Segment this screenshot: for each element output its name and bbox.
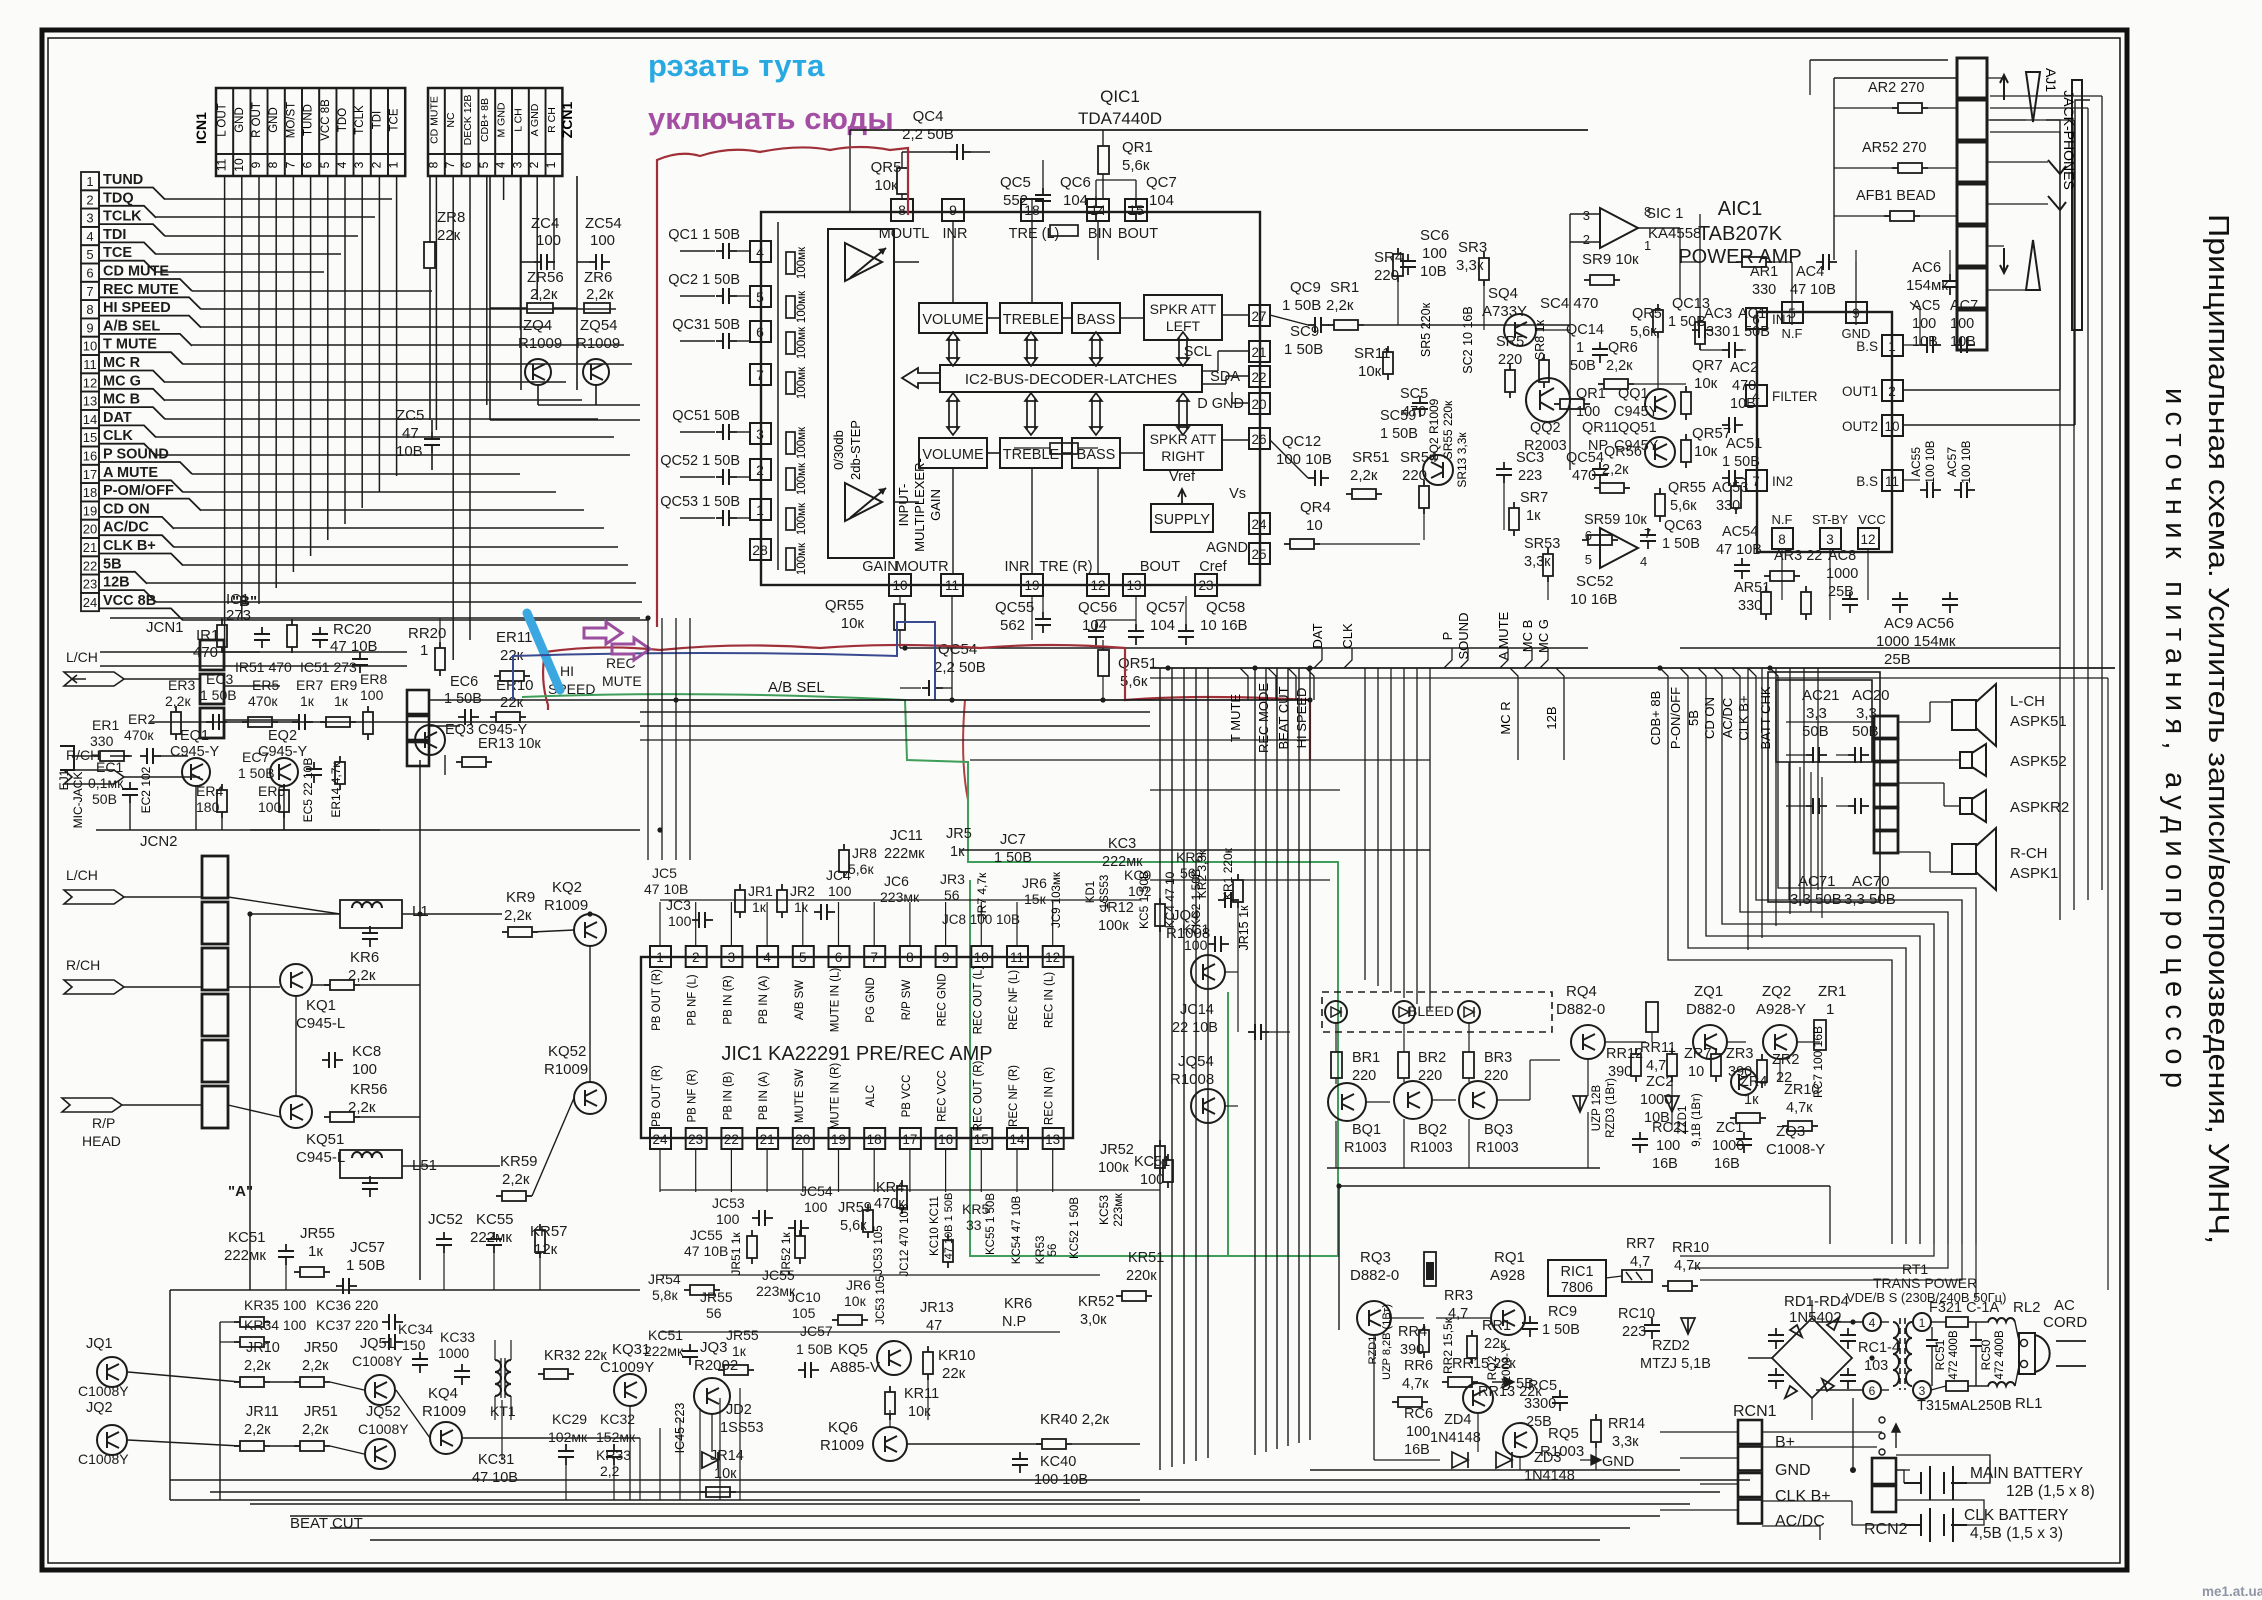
svg-text:ZR10: ZR10 [1784,1082,1819,1098]
svg-text:6: 6 [460,161,474,168]
svg-text:JR55: JR55 [726,1327,759,1343]
svg-text:4: 4 [1640,554,1647,569]
svg-text:7: 7 [756,367,764,383]
svg-text:2,2к: 2,2к [165,693,191,709]
svg-text:MC R: MC R [103,355,141,371]
svg-text:Cref: Cref [1199,559,1227,575]
svg-text:BOUT: BOUT [1140,559,1180,575]
svg-text:ER11: ER11 [496,629,532,646]
svg-text:QR1: QR1 [1122,139,1153,156]
svg-text:RC6: RC6 [1404,1406,1433,1422]
svg-text:QC2 1 50B: QC2 1 50B [668,272,740,288]
svg-text:JCN1: JCN1 [146,619,184,636]
svg-text:8: 8 [266,161,280,168]
red trace jic [963,700,968,850]
svg-text:CORD: CORD [2043,1314,2087,1331]
svg-text:QQ1: QQ1 [1618,386,1649,402]
svg-text:QR51: QR51 [1118,655,1157,672]
svg-text:AC21: AC21 [1802,687,1840,704]
wires battery [1896,1469,1910,1471]
svg-text:16B: 16B [1714,1156,1740,1172]
svg-text:22 10B: 22 10B [1172,1020,1218,1036]
svg-text:KC55: KC55 [476,1211,514,1228]
svg-text:47 10B: 47 10B [644,881,688,897]
ZCN1 cell 1 R CH [546,88,563,154]
svg-text:BOUT: BOUT [1118,226,1158,242]
wire SCL SDA DGND [1202,370,1218,372]
svg-text:JC8 100 10B: JC8 100 10B [942,912,1020,927]
svg-text:CLK BATTERY: CLK BATTERY [1964,1507,2069,1524]
svg-text:21: 21 [760,1132,775,1147]
svg-text:JC53 105: JC53 105 [875,1275,887,1324]
pin 17 A MUTE [81,465,99,483]
transistor KQ1 C945-L [280,964,312,996]
vertical trunk bundle [1159,668,1161,1470]
svg-text:JR50: JR50 [304,1340,338,1356]
capacitor 100мк 2 [786,296,795,318]
svg-text:102мк: 102мк [548,1429,588,1445]
svg-text:2,2к: 2,2к [530,286,558,303]
svg-text:SC52: SC52 [1576,573,1614,590]
svg-text:10B: 10B [1730,396,1756,412]
svg-text:ZQ2: ZQ2 [1762,983,1791,1000]
svg-text:23: 23 [688,1132,703,1147]
svg-text:12B: 12B [1544,706,1559,729]
svg-text:R1009: R1009 [544,897,588,914]
ZCN1 cell 5 CDB+ 8B [478,88,495,154]
svg-text:INR: INR [943,226,968,242]
svg-text:ER5: ER5 [258,783,285,799]
diode ZZD1 [1665,1096,1679,1112]
wire long verticals left-mid [647,618,649,860]
svg-text:5,6к: 5,6к [848,861,874,877]
svg-text:14: 14 [1009,1132,1025,1147]
svg-text:ZR1: ZR1 [1818,983,1846,1000]
svg-text:47 10B: 47 10B [684,1243,728,1259]
wire bundle right edge [2059,132,2061,920]
svg-text:7: 7 [1644,526,1651,541]
svg-text:5: 5 [86,247,93,262]
svg-text:ZR3: ZR3 [1726,1046,1753,1062]
svg-text:KR9: KR9 [506,889,535,906]
svg-text:RR1: RR1 [1482,1318,1511,1334]
svg-text:VOLUME: VOLUME [922,447,984,463]
svg-text:104: 104 [1150,617,1175,634]
svg-text:QC9: QC9 [1290,279,1321,296]
svg-text:RC20: RC20 [333,621,371,638]
svg-text:VCC: VCC [1858,512,1885,527]
svg-text:AR2 270: AR2 270 [1868,80,1924,96]
JIC1 pin 18 [864,1128,885,1149]
resistor ER5 [242,721,248,723]
navy trace [513,622,935,700]
ICN1 cell 3 TCLK [354,88,371,154]
svg-text:470: 470 [1732,378,1756,394]
svg-text:JQ3: JQ3 [700,1339,728,1356]
svg-text:KC31: KC31 [478,1452,514,1468]
transformer pin 6 [1863,1381,1881,1399]
wire long horizontals mid [970,759,1430,761]
svg-text:6: 6 [835,950,843,965]
svg-text:18: 18 [867,1132,882,1147]
svg-text:1: 1 [544,161,558,168]
svg-text:20: 20 [795,1132,810,1147]
svg-text:10: 10 [83,339,97,354]
svg-text:JC53: JC53 [712,1195,745,1211]
svg-text:13: 13 [1045,1132,1060,1147]
pin 18 P-OM/OFF [81,483,99,501]
IC RIC1 7806 [1548,1260,1606,1296]
wire [124,896,202,898]
svg-text:C945-L: C945-L [296,1149,345,1166]
AIC1 pin 6 IN1 [1746,308,1767,329]
svg-text:24: 24 [83,595,97,610]
svg-text:21: 21 [1251,345,1266,360]
svg-text:TAB207K: TAB207K [1698,223,1783,245]
QIC1 pin 14 BIN [1087,199,1109,221]
svg-text:JC52: JC52 [428,1211,463,1228]
svg-text:R/P SW: R/P SW [901,980,913,1021]
JIC1 pin 14 [1007,1128,1028,1149]
svg-text:JR14: JR14 [710,1448,744,1464]
svg-text:0,1мк: 0,1мк [88,775,124,791]
svg-text:1 50B: 1 50B [1732,324,1770,340]
pin 11 MC R [81,355,99,373]
svg-text:22: 22 [1251,370,1266,385]
svg-text:33: 33 [966,1217,982,1233]
svg-text:AC20: AC20 [1852,687,1890,704]
wire [128,1372,240,1382]
svg-text:KR34 100: KR34 100 [244,1317,306,1333]
svg-text:AFB1 BEAD: AFB1 BEAD [1856,188,1936,204]
svg-text:SR13 3,3к: SR13 3,3к [1455,432,1469,488]
svg-text:11: 11 [1885,474,1899,489]
svg-text:1 50B: 1 50B [200,687,237,703]
pin 14 DAT [81,410,99,428]
QIC1 pin 11 MOUTR [941,574,963,596]
svg-text:EC2 102: EC2 102 [139,766,153,813]
svg-text:SR55 220к: SR55 220к [1441,400,1455,459]
svg-text:KC34: KC34 [398,1321,433,1337]
wire [520,262,522,390]
svg-text:P-OM/OFF: P-OM/OFF [103,483,174,499]
svg-text:3: 3 [1826,532,1834,547]
svg-text:SR53: SR53 [1524,536,1560,552]
svg-text:4: 4 [494,161,508,168]
wire [110,755,132,757]
ZCN1 cell 2 A GND [529,88,546,154]
wire QIC1 bottom rail [900,647,1588,649]
QIC1 pin 1 [750,499,771,520]
speaker R-CH ASPK1 [1952,844,1976,874]
svg-text:23: 23 [83,577,97,592]
svg-text:M GND: M GND [496,102,508,137]
svg-text:21: 21 [83,540,97,555]
svg-text:JD2: JD2 [726,1402,752,1418]
svg-text:4: 4 [763,950,771,965]
svg-text:QR56: QR56 [1604,444,1642,460]
block SPKR ATT RIGHT [1144,425,1222,470]
pin 24 VCC 8B [81,593,99,611]
svg-text:MUTE SW: MUTE SW [794,1069,806,1123]
svg-text:6: 6 [1585,528,1592,543]
wire rows to right [165,198,392,200]
capacitor 100мк 1 [786,252,795,274]
pin 1 TUND [81,172,99,190]
wire top rail [850,129,1588,131]
ZCN1 cell 6 DECK 12B [462,88,479,154]
QIC1 pin 4 [750,241,771,262]
wire [170,1289,640,1291]
svg-text:GND: GND [234,107,246,133]
svg-text:2: 2 [369,161,383,168]
svg-text:IC51 273: IC51 273 [300,659,357,675]
capacitor KC2 series [1218,899,1225,901]
transistor BQ2 R1003 [1394,1081,1432,1119]
svg-text:ER2: ER2 [128,711,155,727]
svg-text:19: 19 [1024,578,1039,593]
svg-text:KT1: KT1 [490,1403,516,1419]
svg-text:A928-Y: A928-Y [1756,1001,1806,1018]
svg-text:1к: 1к [794,899,809,915]
svg-text:JR51: JR51 [304,1404,338,1420]
svg-text:T MUTE: T MUTE [103,337,157,353]
svg-text:24: 24 [652,1132,668,1147]
svg-text:9: 9 [949,202,957,218]
svg-text:19: 19 [831,1132,846,1147]
svg-text:RL2: RL2 [2013,1299,2041,1316]
svg-text:JIC1 KA22291 PRE/REC AMP: JIC1 KA22291 PRE/REC AMP [721,1043,992,1065]
svg-text:T MUTE: T MUTE [1228,694,1243,742]
svg-text:10к: 10к [1358,363,1382,380]
svg-text:2,2к: 2,2к [504,907,532,924]
svg-text:B.S: B.S [1856,339,1878,354]
svg-text:REC NF (L): REC NF (L) [1008,970,1020,1030]
QIC1 pin 24 [1249,513,1270,534]
svg-text:3,0к: 3,0к [1080,1312,1107,1328]
svg-text:562: 562 [1000,617,1025,634]
connector speaker stack [1874,716,1898,738]
pin 4 TDI [81,227,99,245]
LED BD2 [1393,1001,1415,1023]
AIC1 pin 12 VCC [1858,528,1879,549]
svg-text:AC8: AC8 [1828,548,1856,564]
svg-text:MULTIPLEXER-: MULTIPLEXER- [912,458,927,552]
capacitor 100мк 3 [786,332,795,354]
svg-text:SR51: SR51 [1352,449,1390,466]
svg-text:RR15 22к: RR15 22к [1452,1356,1516,1372]
svg-text:N.F: N.F [1772,512,1793,527]
red trace left drop [543,652,548,710]
wires power bottom [1339,1185,1830,1187]
svg-text:5: 5 [1585,552,1592,567]
svg-text:QC56: QC56 [1078,599,1117,616]
transistor BQ1 R1003 [1328,1083,1366,1121]
JIC1 pin 15 [971,1128,992,1149]
block SUPPLY [1151,504,1213,532]
svg-text:5B: 5B [103,556,122,572]
svg-text:1: 1 [1576,340,1584,356]
JIC1 pin 5 [793,946,814,967]
svg-text:47 10B: 47 10B [472,1470,518,1486]
svg-text:1: 1 [756,502,764,518]
svg-text:OUT1: OUT1 [1842,384,1878,399]
JIC1 pin 13 [1043,1128,1064,1149]
svg-text:50B: 50B [1570,358,1596,374]
ICN1 cell 7 MO/ST [285,88,302,154]
svg-text:JC14: JC14 [1180,1002,1214,1018]
svg-text:10: 10 [1688,1064,1704,1080]
svg-text:223мк: 223мк [880,889,920,905]
bus arrow left [902,368,940,388]
pin 10 T MUTE [81,337,99,355]
svg-text:180: 180 [196,799,220,815]
wire jack top links [1990,131,2060,133]
svg-text:1к: 1к [300,693,315,709]
svg-text:BQ3: BQ3 [1484,1122,1513,1138]
box around speaker caps [1776,680,1872,762]
wire stub MC R 12B [1517,700,1519,760]
bus horizontal second [1150,677,2108,679]
svg-text:1 50B: 1 50B [1542,1322,1580,1338]
svg-text:REC MODE: REC MODE [1256,683,1271,753]
IC AIC1 body [1757,312,1892,552]
pin 2 TDQ [81,190,99,208]
JIC1 pin 11 [1007,946,1028,967]
svg-text:P: P [1440,632,1455,641]
svg-text:14: 14 [1090,202,1106,218]
svg-text:472 400B: 472 400B [1948,1330,1960,1380]
svg-text:15: 15 [974,1132,989,1147]
svg-text:"B": "B" [232,593,257,610]
svg-text:5: 5 [318,161,332,168]
resistor inner bin2 [1050,225,1078,236]
svg-text:5: 5 [477,161,491,168]
AIC1 pin 1 B.S [1882,335,1903,356]
svg-text:3: 3 [1583,208,1590,223]
svg-text:5,6к: 5,6к [1122,157,1150,174]
svg-text:ZCN1: ZCN1 [559,102,575,139]
svg-text:BR3: BR3 [1484,1050,1512,1066]
wire lower jic [660,1189,1160,1191]
svg-text:8: 8 [1778,532,1786,547]
svg-text:R1009: R1009 [576,335,620,352]
bridge caps [1775,1328,1777,1335]
wires AIC1 [1700,349,1722,351]
svg-text:JCN2: JCN2 [140,833,178,850]
wires midright [1270,315,1308,325]
svg-text:330: 330 [1738,598,1762,614]
svg-text:SDA: SDA [1210,369,1240,385]
svg-text:11: 11 [83,357,97,372]
svg-text:Принципиальная схема. Усилител: Принципиальная схема. Усилитель записи/в… [2202,214,2234,1244]
svg-text:QC5: QC5 [1000,174,1031,191]
svg-text:QC12: QC12 [1282,433,1321,450]
svg-text:BR1: BR1 [1352,1050,1380,1066]
purple arrow 1 [584,622,622,644]
svg-text:2,2к: 2,2к [302,1422,329,1438]
IC JIC1 KA22291 PRE/REC AMP body [641,957,1073,1138]
wires RCN1 left [1660,1431,1738,1433]
QIC1 pin 3 [750,423,771,444]
jack triangles [2026,72,2040,122]
QIC1 pin 25 [1249,543,1270,564]
capacitor 100мк 6 [786,468,795,490]
svg-text:BASS: BASS [1077,312,1116,328]
svg-text:PB OUT (R): PB OUT (R) [651,969,663,1031]
svg-text:KR53: KR53 [1035,1236,1047,1265]
svg-text:MC G: MC G [103,373,141,389]
inductor RL2 [1988,1318,2015,1322]
svg-text:T315мAL250B: T315мAL250B [1917,1398,2012,1414]
ICN1 cell 1 TCE [388,88,405,154]
wire [100,651,407,653]
svg-text:RR3: RR3 [1444,1288,1473,1304]
QIC1 pin 20 [1249,393,1270,414]
svg-text:JR55: JR55 [300,1225,335,1242]
bus horizontal main [1150,667,2115,669]
svg-text:2,2к: 2,2к [244,1358,271,1374]
svg-text:222мк: 222мк [1102,854,1143,870]
svg-text:ICN1: ICN1 [193,112,209,144]
svg-text:16B: 16B [1404,1442,1430,1458]
wire nested elbows into power [1700,1244,1962,1280]
double arrows row2 [947,393,959,435]
dashed box BLEED [1322,992,1552,1032]
svg-text:RC10: RC10 [1618,1306,1655,1322]
svg-text:1000: 1000 [1826,566,1858,582]
JIC1 pin 23 [686,1128,707,1149]
svg-text:KC36 220: KC36 220 [316,1297,378,1313]
svg-text:L CH: L CH [512,108,524,132]
svg-text:KR11: KR11 [904,1386,939,1402]
svg-text:2,2к: 2,2к [302,1358,329,1374]
svg-text:HEAD: HEAD [82,1133,121,1149]
connecting wires inside QIC1 [987,317,1000,319]
svg-text:1: 1 [420,642,428,659]
svg-text:ZC5: ZC5 [396,407,424,424]
svg-text:10к: 10к [841,615,865,632]
wire [150,721,640,723]
svg-text:R1003: R1003 [1344,1140,1387,1156]
svg-text:2,2к: 2,2к [348,967,376,984]
svg-text:SC5: SC5 [1400,386,1428,402]
svg-text:SR5: SR5 [1496,334,1524,350]
svg-text:17: 17 [902,1132,917,1147]
svg-text:3: 3 [86,211,93,226]
svg-text:MC B: MC B [1520,620,1535,653]
svg-text:8: 8 [86,302,93,317]
svg-text:1 50B: 1 50B [238,765,275,781]
svg-text:CLK B+: CLK B+ [1736,695,1751,740]
svg-text:7806: 7806 [1561,1280,1593,1296]
svg-text:R1003: R1003 [1476,1140,1519,1156]
svg-text:AGND: AGND [1206,540,1248,556]
resistor anon1 [1805,586,1807,592]
svg-text:1 50B: 1 50B [1284,341,1323,358]
svg-text:KC51: KC51 [648,1327,683,1343]
svg-text:BQ2: BQ2 [1418,1122,1447,1138]
svg-text:JR3: JR3 [940,871,965,887]
wire jack feeds [1810,59,1948,61]
svg-text:KR56: KR56 [350,1081,388,1098]
svg-text:AC7: AC7 [1950,298,1978,314]
QIC1 pin 13 BOUT [1123,574,1145,596]
svg-text:13: 13 [83,394,97,409]
ZCN1 cell 7 NC [445,88,462,154]
svg-text:JR8: JR8 [852,845,877,861]
svg-text:MC B: MC B [103,392,140,408]
